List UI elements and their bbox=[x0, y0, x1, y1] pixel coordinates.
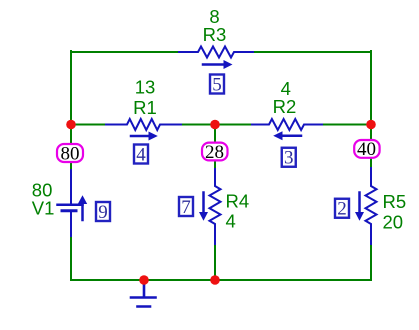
wire middle right (R2 to node 40) bbox=[322, 124, 371, 126]
wire top right segment bbox=[253, 51, 371, 53]
arrow R2 current left bbox=[282, 135, 301, 138]
svg-text:4: 4 bbox=[136, 145, 146, 166]
wire middle center (R1 to R2) bbox=[181, 124, 252, 126]
svg-text:3: 3 bbox=[284, 148, 294, 169]
wire bottom bbox=[71, 279, 371, 281]
arrowhead V1 up bbox=[78, 195, 87, 204]
resistor R4 bbox=[210, 169, 221, 244]
arrow R4 current down bbox=[202, 193, 205, 214]
wire right vertical bbox=[370, 51, 372, 280]
arrowhead R2 left bbox=[273, 131, 282, 140]
wire top left segment bbox=[71, 51, 179, 53]
battery V1 short plate bbox=[62, 209, 76, 212]
arrow R5 current down bbox=[358, 193, 361, 214]
ground symbol bbox=[131, 285, 156, 307]
battery V1 long plate bbox=[58, 204, 83, 207]
svg-text:13: 13 bbox=[135, 77, 156, 98]
arrowhead R5 down bbox=[355, 212, 364, 221]
svg-text:R4: R4 bbox=[226, 191, 250, 212]
node label 28 oval bbox=[202, 143, 228, 161]
svg-text:2: 2 bbox=[337, 199, 347, 220]
svg-text:40: 40 bbox=[357, 139, 376, 160]
wire middle left (node 80 to R1) bbox=[71, 124, 106, 126]
branch box 7 bbox=[179, 197, 193, 216]
branch box 3 bbox=[282, 148, 296, 167]
node label 40 oval bbox=[354, 140, 379, 158]
svg-text:9: 9 bbox=[98, 202, 108, 223]
resistor R1 bbox=[106, 119, 181, 130]
node dot right (40) bbox=[366, 120, 376, 130]
wire left vertical bbox=[70, 51, 72, 280]
arrow R3 current right bbox=[203, 63, 224, 66]
arrowhead R1 right bbox=[149, 132, 158, 141]
branch box 2 bbox=[335, 199, 349, 218]
svg-text:R2: R2 bbox=[273, 96, 297, 117]
branch box 9 bbox=[96, 202, 110, 221]
branch box 5 bbox=[210, 75, 224, 94]
node label 80 oval bbox=[57, 144, 83, 162]
svg-text:20: 20 bbox=[383, 212, 404, 233]
arrowhead R4 down bbox=[199, 212, 208, 221]
arrow R1 current right bbox=[131, 135, 149, 138]
svg-text:R3: R3 bbox=[203, 24, 227, 45]
node dot middle (28) bbox=[210, 120, 220, 130]
svg-text:7: 7 bbox=[181, 197, 191, 218]
battery V1 leads bbox=[70, 170, 72, 236]
node dot left (80) bbox=[66, 120, 76, 130]
svg-text:4: 4 bbox=[226, 211, 236, 232]
branch box 4 bbox=[134, 145, 148, 164]
svg-text:28: 28 bbox=[205, 142, 224, 163]
svg-text:V1: V1 bbox=[32, 198, 55, 219]
svg-text:80: 80 bbox=[61, 144, 80, 165]
resistor R3 bbox=[179, 47, 253, 58]
node dot ground bbox=[139, 275, 149, 285]
svg-text:5: 5 bbox=[212, 75, 222, 96]
wire node 28 branch down bbox=[214, 125, 216, 280]
arrowhead R3 right bbox=[224, 60, 233, 69]
node dot R4 bottom bbox=[210, 275, 220, 285]
resistor R2 bbox=[252, 119, 322, 130]
arrow V1 current up bbox=[81, 203, 84, 220]
svg-text:R5: R5 bbox=[383, 191, 407, 212]
svg-text:R1: R1 bbox=[133, 97, 157, 118]
resistor R5 bbox=[366, 168, 377, 244]
